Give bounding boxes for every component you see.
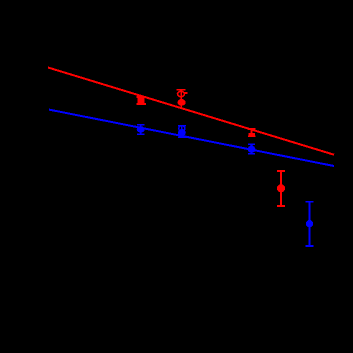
blue point B3 marker (filled circle)	[248, 146, 256, 153]
blue isolated point B4 error bar	[306, 202, 314, 246]
red power-law fit line	[48, 68, 334, 155]
red point R3 marker (filled square)	[248, 133, 255, 136]
red point R2 open circle marker	[178, 91, 185, 96]
red point R2 sigma arm stub	[185, 92, 188, 94]
blue point B2 error bar with caps	[178, 126, 186, 138]
red point R2 filled marker	[178, 99, 186, 106]
blue point B3 error bar	[248, 144, 255, 153]
red point R1 marker (filled square)	[137, 98, 144, 104]
red point R1 error bar	[136, 97, 145, 105]
blue point B2 open circle marker	[179, 126, 185, 132]
red point R3 error bar	[248, 129, 255, 136]
red isolated point R4 marker (filled circle)	[277, 184, 285, 192]
blue point B2 filled marker	[178, 129, 186, 136]
red isolated point R4 error bar	[277, 171, 285, 206]
blue point B1 marker (filled circle)	[137, 126, 145, 133]
blue point B1 error bar	[137, 125, 145, 134]
blue isolated point B4 marker (filled circle)	[306, 220, 313, 227]
red point R2 error bar with top cap	[177, 90, 186, 107]
blue power-law fit line	[49, 110, 334, 166]
